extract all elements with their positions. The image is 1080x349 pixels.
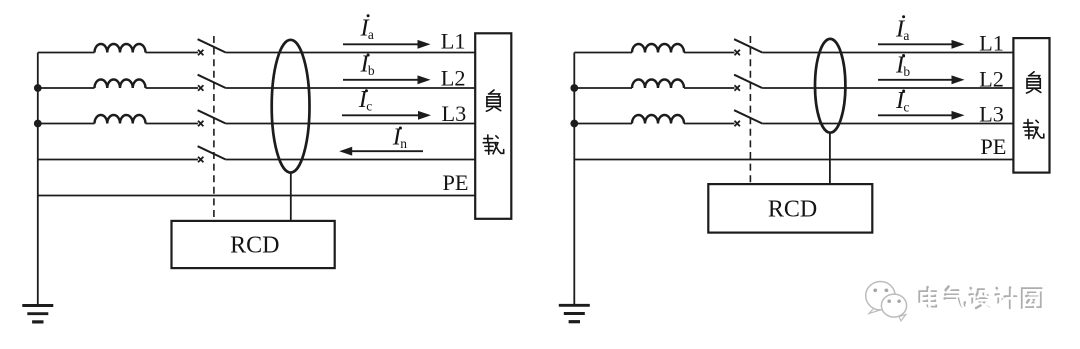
breaker linkage dashed line (right)	[749, 36, 751, 184]
label Ia (right)	[895, 15, 909, 43]
junction dot node L3 bus (left)	[34, 120, 42, 128]
svg-text:RCD: RCD	[768, 196, 817, 222]
CT secondary wire to RCD (left)	[290, 173, 292, 221]
inductor phase c (right)	[632, 115, 684, 123]
svg-text:b: b	[903, 64, 910, 79]
current arrow Ic (left)	[342, 111, 431, 120]
junction dot node L2 bus (left)	[34, 84, 42, 92]
svg-text:L1: L1	[979, 31, 1004, 56]
wire L1 (left diagram)	[38, 52, 475, 54]
svg-text:L3: L3	[442, 101, 467, 126]
label In (left)	[392, 123, 407, 151]
inductor phase a (right)	[632, 44, 684, 53]
current arrow Ib (right)	[878, 75, 965, 84]
vertical supply bus (left diagram)	[37, 53, 39, 306]
ground symbol (right)	[559, 305, 590, 321]
inductor phase b (right)	[632, 80, 684, 89]
wire L3 (right diagram)	[574, 123, 1013, 125]
inductor phase a (left)	[95, 44, 146, 53]
svg-text:L1: L1	[441, 29, 466, 54]
junction dot node L2 bus (right)	[570, 84, 578, 92]
label Ib (left)	[360, 50, 375, 78]
breaker linkage dashed line (left)	[213, 36, 215, 221]
vertical supply bus (right diagram)	[573, 53, 575, 306]
wire L2 (left diagram)	[38, 87, 475, 89]
current arrow In (left, pointing left)	[339, 147, 423, 156]
load label 负 (right)	[1026, 72, 1040, 93]
svg-text:PE: PE	[980, 134, 1006, 159]
breaker pole L1 (right)	[734, 39, 762, 55]
wire PE (right diagram)	[574, 159, 1013, 161]
watermark WeChat icon bubbles	[866, 282, 907, 322]
wire L3 (left diagram)	[38, 123, 475, 125]
wire N (left diagram)	[38, 159, 475, 161]
label Ia (left)	[360, 14, 374, 42]
watermark text 电气设计圈 highlight	[921, 288, 1043, 310]
breaker pole N (left)	[198, 146, 226, 162]
label Ic (left)	[358, 86, 372, 114]
RCD box (left)	[172, 221, 335, 268]
current arrow Ia (left)	[343, 40, 431, 49]
label Ib (right)	[895, 51, 910, 79]
wire L2 (right diagram)	[574, 87, 1013, 89]
inductor phase b (left)	[95, 80, 146, 89]
svg-text:b: b	[368, 63, 375, 78]
ground symbol (left)	[22, 306, 53, 322]
breaker pole L3 (left)	[198, 110, 226, 126]
svg-text:PE: PE	[443, 170, 469, 195]
inductor phase c (left)	[95, 115, 146, 123]
svg-text:RCD: RCD	[230, 233, 279, 259]
junction dot node L3 bus (right)	[570, 120, 578, 128]
load label 载 (left)	[483, 135, 503, 154]
CT secondary wire to RCD (right)	[829, 133, 831, 184]
load label 负 (left)	[486, 90, 500, 111]
current arrow Ic (right)	[878, 111, 965, 120]
current arrow Ib (left)	[343, 75, 431, 84]
breaker pole L1 (left)	[198, 39, 226, 55]
svg-text:L3: L3	[979, 102, 1004, 127]
svg-text:c: c	[903, 100, 909, 115]
current transformer toroid (right)	[815, 39, 845, 133]
watermark text 电气设计圈 shadow	[920, 287, 1042, 309]
current transformer toroid (left)	[272, 40, 310, 173]
label Ic (right)	[895, 87, 909, 115]
load box 负载 (right)	[1013, 38, 1049, 173]
svg-text:n: n	[400, 136, 407, 151]
breaker pole L2 (left)	[198, 75, 226, 91]
RCD box (right)	[708, 184, 872, 233]
wire PE (left diagram)	[38, 195, 475, 197]
load box 负载 (left)	[475, 33, 511, 219]
breaker pole L2 (right)	[734, 75, 762, 91]
current arrow Ia (right)	[878, 40, 965, 49]
wire L1 (right diagram)	[574, 52, 1013, 54]
svg-text:a: a	[368, 27, 374, 42]
load label 载 (right)	[1023, 119, 1043, 138]
svg-text:a: a	[903, 28, 909, 43]
svg-text:L2: L2	[441, 66, 466, 91]
breaker pole L3 (right)	[734, 110, 762, 126]
svg-text:L2: L2	[979, 66, 1004, 91]
svg-text:c: c	[366, 99, 372, 114]
